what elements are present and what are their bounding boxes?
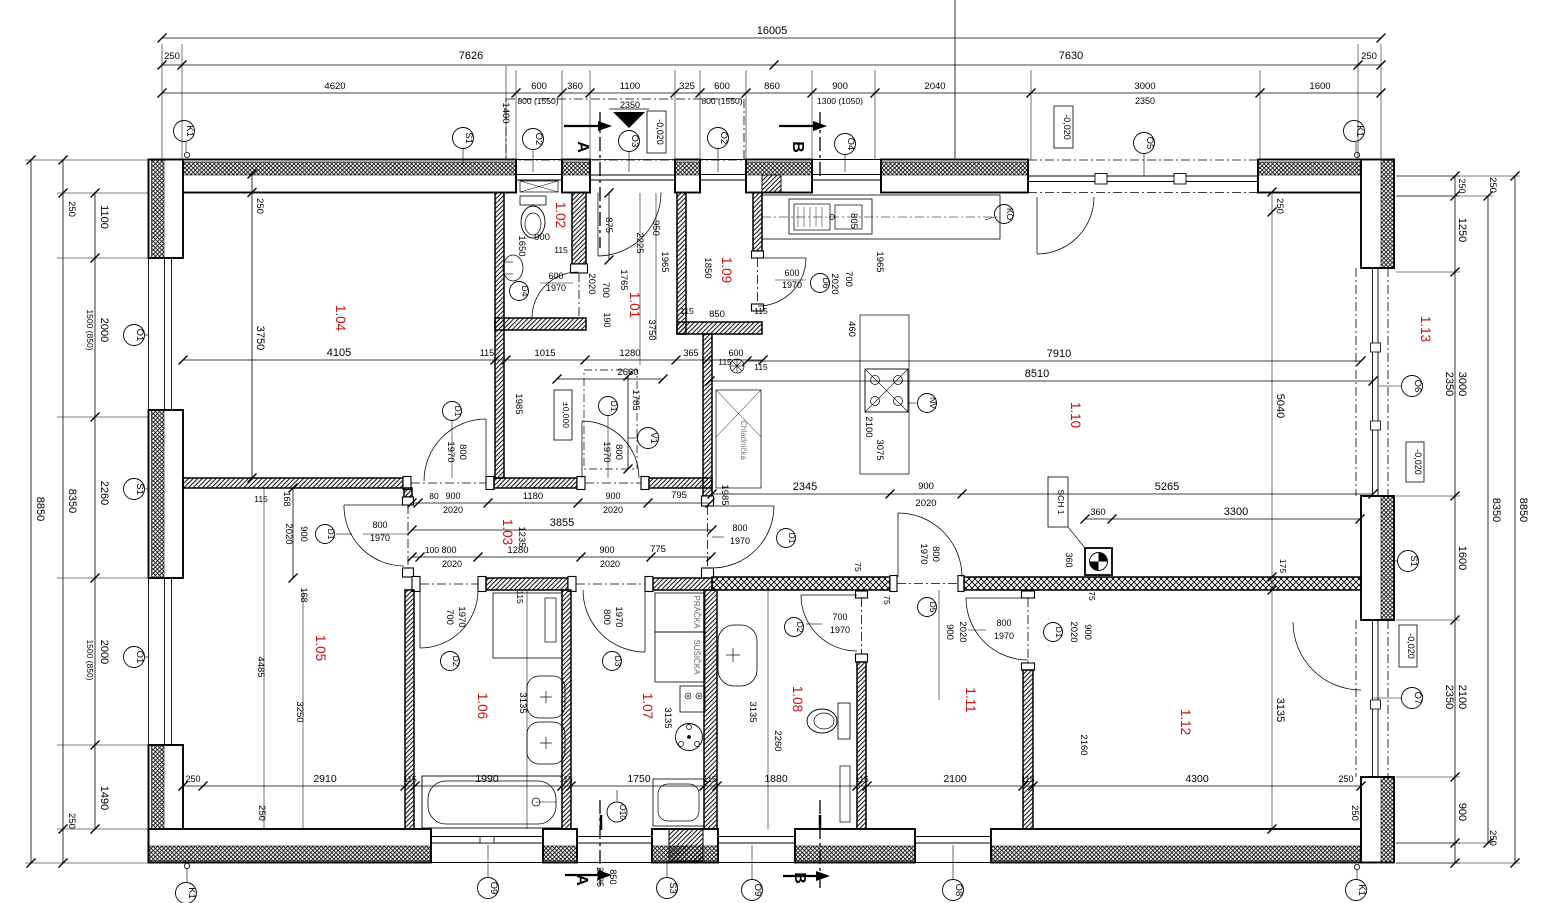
svg-text:3855: 3855 [550,517,574,529]
marker O4 top [835,134,856,155]
svg-text:250: 250 [185,774,200,784]
svg-text:2350: 2350 [620,100,640,110]
svg-text:1970: 1970 [613,606,624,627]
svg-text:1970: 1970 [730,536,750,546]
bathroom 1.06 shelf [493,593,562,658]
svg-text:3135: 3135 [1274,698,1286,722]
svg-text:700: 700 [444,609,455,625]
svg-text:1100: 1100 [98,205,110,229]
svg-text:S3: S3 [667,882,678,894]
svg-text:7626: 7626 [459,50,483,62]
closet dashed 1.01 [584,370,637,469]
porch door to 1.10 [1036,197,1038,254]
svg-text:B: B [789,141,806,153]
svg-text:1.02: 1.02 [553,202,568,228]
pier in top wall at 1.09 [762,175,781,193]
svg-text:900: 900 [534,232,550,243]
svg-text:115: 115 [254,494,268,504]
windows in left wall O1,O1 [148,258,150,410]
svg-text:D1: D1 [787,533,797,544]
svg-text:850: 850 [709,309,725,320]
svg-text:168: 168 [282,491,292,506]
windows in bottom wall O9,O10,O9,O8 [431,862,543,864]
svg-text:1970: 1970 [445,441,456,462]
left dimension chains [30,160,32,863]
svg-text:A: A [573,874,590,886]
masonry pier S3 [669,829,703,861]
corridor 1.03 dims [412,502,710,504]
WC washbasin [503,255,523,281]
svg-text:900: 900 [832,81,848,92]
svg-text:O10: O10 [618,804,628,820]
svg-text:S1: S1 [134,483,145,495]
level -0,020 right1 [1406,442,1424,482]
svg-text:2100: 2100 [863,416,874,437]
svg-text:1750: 1750 [627,773,651,785]
svg-text:2000: 2000 [98,640,110,664]
1.04 vertical dim [251,174,253,478]
right dimension chains [1454,176,1456,863]
marker O9 bottom [478,878,499,899]
svg-text:-0,020: -0,020 [1062,114,1072,140]
bottom exterior wall [149,829,432,863]
svg-text:900: 900 [1456,803,1468,821]
svg-text:365: 365 [683,348,698,358]
svg-text:1970: 1970 [994,631,1014,641]
kitchen island [860,315,909,474]
svg-text:1300 (1050): 1300 (1050) [817,96,863,106]
marker KO [995,205,1014,224]
svg-text:1970: 1970 [456,606,467,627]
svg-text:KO: KO [1005,208,1015,221]
svg-text:O3: O3 [629,135,640,148]
svg-text:8350: 8350 [66,489,78,513]
svg-text:O1: O1 [134,651,145,664]
svg-text:860: 860 [764,81,780,92]
svg-text:190: 190 [602,312,612,327]
marker D1 a [443,402,462,421]
svg-text:1500 (850): 1500 (850) [85,639,95,680]
marker O9 bottom2 [742,880,763,901]
svg-text:8850: 8850 [34,497,46,521]
entrance arrow [613,112,645,128]
svg-text:3000: 3000 [1456,372,1468,396]
svg-text:2350: 2350 [1135,96,1155,106]
svg-text:PRAČKA: PRAČKA [692,596,701,630]
svg-text:2350: 2350 [1443,685,1455,709]
marker S3 bottom [657,878,678,899]
svg-text:80: 80 [429,491,439,501]
marker D1 b [599,397,618,416]
svg-text:5265: 5265 [1155,481,1179,493]
svg-text:115: 115 [754,362,768,372]
svg-text:O7: O7 [1412,692,1423,705]
door D1 1.01-1.03 [581,421,583,478]
door D4 (1.02) [532,317,578,319]
dim line rooms top area y=360 [183,359,763,361]
svg-text:SCH 1: SCH 1 [1056,489,1066,514]
marker K1 top-right [1344,121,1365,142]
svg-text:1970: 1970 [830,625,850,635]
wall 1.02 bottom [495,318,586,330]
svg-text:600: 600 [548,271,563,281]
wall 1.09 bottom [677,322,762,334]
svg-text:1400: 1400 [500,102,511,123]
dims 360/3300 [1085,518,1360,520]
svg-text:115: 115 [480,348,494,358]
svg-text:D1: D1 [1054,627,1064,638]
svg-text:Chladnička: Chladnička [739,420,748,460]
svg-text:1970: 1970 [782,280,802,290]
svg-text:2040: 2040 [924,81,945,92]
svg-text:250: 250 [1487,830,1498,846]
svg-text:-0,020: -0,020 [655,119,665,145]
marker O6 right [1402,376,1423,397]
svg-text:1015: 1015 [534,348,555,359]
vent symbol [730,359,744,373]
dims 7910/8510 [747,360,1361,362]
svg-text:1.09: 1.09 [719,257,734,283]
wall 1.11/1.12 with door D1 [1022,591,1035,598]
svg-text:1.13: 1.13 [1418,316,1433,342]
bottom rooms dim line y=786 [183,785,1361,787]
svg-text:2225: 2225 [595,867,605,887]
svg-text:1880: 1880 [764,773,788,785]
svg-text:5040: 5040 [1274,394,1286,418]
marker O1 left2 [124,647,145,668]
svg-text:3135: 3135 [662,707,673,728]
svg-text:D4: D4 [520,286,530,297]
svg-text:168: 168 [299,587,309,602]
top exterior wall [149,160,517,193]
svg-text:8350: 8350 [1490,498,1502,522]
svg-text:600: 600 [531,81,547,92]
door D5 to 1.10 [897,513,899,577]
svg-text:115: 115 [559,774,573,784]
svg-text:O2: O2 [718,132,729,145]
svg-text:600: 600 [784,268,799,278]
svg-text:D1: D1 [609,401,619,412]
section B top [779,125,815,127]
svg-text:800 (1550): 800 (1550) [517,96,558,106]
grid line [954,0,956,160]
svg-text:3750: 3750 [646,319,657,340]
svg-text:75: 75 [1087,591,1097,601]
entrance door [597,193,599,257]
1.13 right side leaders [1355,620,1357,777]
svg-text:4105: 4105 [327,347,351,359]
svg-text:1.03: 1.03 [500,519,515,545]
level -0,020 right2 [1399,625,1417,667]
svg-text:2020: 2020 [600,559,620,569]
svg-text:A: A [574,141,591,153]
door D3 to 1.07 [644,590,646,652]
svg-text:1850: 1850 [702,257,713,278]
svg-text:O4: O4 [845,138,856,151]
svg-text:8510: 8510 [1025,368,1049,380]
svg-text:250: 250 [254,198,265,214]
svg-text:800: 800 [441,545,456,555]
svg-text:3000: 3000 [1134,81,1155,92]
svg-text:2020: 2020 [915,498,936,509]
svg-text:800: 800 [613,444,624,460]
D2 door 1.08 labels [785,618,804,637]
svg-text:K1: K1 [186,887,197,899]
marker S1 top [453,128,474,149]
wall 1.07/1.08 [704,590,717,829]
svg-text:3075: 3075 [874,439,885,460]
stove NV [865,369,908,412]
wall 1.02/1.01 with door D4 [572,193,586,265]
boiler 1.07 [676,724,703,751]
door D1 to 1.04 [485,419,487,481]
svg-text:1250: 1250 [1456,218,1468,242]
svg-text:2160: 2160 [1078,734,1089,755]
svg-text:2350: 2350 [1443,372,1455,396]
svg-text:-0,020: -0,020 [1413,449,1423,475]
dim 2660 closet [557,378,663,380]
svg-text:7910: 7910 [1047,348,1071,360]
section A top [564,125,600,127]
wall 1.03 bottom (1.06/1.07 top) with doors D2,D3 [412,577,420,592]
basins 1.06 [527,676,565,718]
svg-text:1970: 1970 [370,533,390,543]
svg-text:D1: D1 [453,406,463,417]
D2 door 1.06 labels [441,652,460,671]
left exterior wall [149,160,184,259]
svg-text:NV: NV [928,397,938,409]
svg-text:1970: 1970 [918,543,929,564]
svg-text:360: 360 [567,81,583,92]
svg-text:O8: O8 [953,884,964,897]
svg-text:115: 115 [754,306,768,316]
svg-text:2020: 2020 [443,505,463,515]
right glazing 1.13 band + O7 window [1355,268,1357,496]
niche above WC [520,181,558,192]
svg-text:1490: 1490 [98,786,110,810]
svg-text:250: 250 [1349,805,1360,821]
svg-text:115: 115 [1021,774,1035,784]
marker K1 bottom-right [1346,880,1367,901]
svg-text:3135: 3135 [747,701,758,722]
svg-text:360: 360 [1064,552,1074,567]
svg-text:1280: 1280 [619,348,640,359]
svg-text:115: 115 [403,774,417,784]
svg-text:O9: O9 [752,884,763,897]
wall 1.10 left (below pantry) with door D1 [703,334,712,496]
svg-text:D3: D3 [613,656,623,667]
right exterior wall [1361,160,1394,269]
marker O7 right [1402,688,1423,709]
terrace door swing 1.12 [1293,622,1361,690]
svg-text:700: 700 [600,282,611,298]
svg-text:175: 175 [1278,559,1288,573]
right interior vertical dims [1271,192,1273,829]
svg-text:2020: 2020 [283,523,294,544]
porch glazed wall O5 [1028,159,1258,161]
svg-text:250: 250 [1338,774,1353,784]
svg-text:1600: 1600 [1456,546,1468,570]
marker O1 left [124,325,145,346]
svg-text:250: 250 [1361,51,1377,62]
svg-text:O1: O1 [134,329,145,342]
svg-text:775: 775 [650,544,666,555]
level -0,020 top right [1054,106,1073,148]
svg-text:875: 875 [603,217,614,233]
wall 1.04/1.02 vertical [495,193,504,479]
svg-text:1600: 1600 [1309,81,1330,92]
radiator 1.08 [840,766,850,822]
wall 1.06/1.07 [562,590,571,829]
svg-text:3250: 3250 [294,701,305,722]
svg-text:4300: 4300 [1185,773,1209,785]
svg-text:2020: 2020 [586,273,597,294]
svg-text:1785: 1785 [630,389,641,410]
svg-text:900: 900 [944,624,955,640]
svg-text:1500 (850): 1500 (850) [85,309,95,350]
svg-text:115: 115 [515,590,525,604]
marker O10 [607,802,627,822]
svg-text:1985: 1985 [513,393,524,414]
dims 2345/900/5265 line [712,493,1373,495]
svg-text:100: 100 [425,545,439,555]
svg-text:795: 795 [671,490,687,501]
svg-text:115: 115 [703,774,717,784]
marker O2b top [708,128,729,149]
wall 1.05/1.06 [405,590,414,829]
marker D6 [811,274,830,293]
svg-text:B: B [791,872,808,884]
svg-text:900: 900 [445,491,460,501]
level -0,020 top [647,111,666,153]
svg-text:950: 950 [650,220,661,236]
svg-text:325: 325 [679,81,695,92]
corridor wall 1.04|1.03 horizontal with doors D1 [183,478,403,488]
shower 1.07 [653,779,704,826]
svg-text:2020: 2020 [957,621,968,642]
svg-text:3135: 3135 [517,692,528,713]
svg-text:250: 250 [66,201,77,217]
svg-text:O2: O2 [533,133,544,146]
svg-text:D5: D5 [928,602,938,613]
washer/dryer 1.07 [655,593,705,632]
svg-text:1180: 1180 [523,491,543,502]
svg-text:2020: 2020 [442,559,462,569]
marker V1 [638,428,659,449]
svg-text:V1: V1 [648,432,659,444]
svg-text:SUŠIČKA: SUŠIČKA [692,639,701,675]
svg-text:K1: K1 [184,125,195,137]
marker D1 c [316,525,335,544]
svg-text:250: 250 [164,51,180,62]
svg-text:360: 360 [1090,507,1105,517]
svg-text:2020: 2020 [603,505,623,515]
top dimension chains [162,37,1381,39]
svg-text:O5: O5 [1144,137,1155,150]
WC 1.02 toilet [520,196,546,205]
svg-text:2020: 2020 [1068,621,1079,642]
svg-text:2225: 2225 [634,232,645,253]
svg-text:2100: 2100 [943,773,967,785]
load-bearing wall 1.10|1.11,1.12 with door D5 [712,577,890,590]
svg-text:4485: 4485 [255,656,266,677]
svg-text:3750: 3750 [254,326,266,350]
svg-text:1.12: 1.12 [1178,709,1193,735]
svg-text:1.05: 1.05 [313,635,328,661]
svg-text:1.11: 1.11 [963,687,978,712]
door D2 to 1.06 [419,590,421,648]
svg-text:S1: S1 [463,132,474,144]
svg-text:800: 800 [732,523,747,533]
svg-text:600: 600 [714,81,730,92]
marker O3 top [619,131,640,152]
door D1 to 1.11 [966,597,1028,599]
svg-text:900: 900 [298,526,309,542]
bathtub 1.06 [422,776,562,828]
svg-text:900: 900 [599,545,614,555]
svg-text:±0,000: ±0,000 [561,402,571,428]
svg-text:2260: 2260 [98,481,110,505]
svg-text:D2: D2 [795,622,805,633]
svg-text:1.07: 1.07 [640,693,655,719]
svg-text:250: 250 [1457,178,1467,193]
svg-text:1100: 1100 [620,81,640,92]
svg-text:7630: 7630 [1059,50,1083,62]
svg-text:2910: 2910 [313,773,337,785]
marker D4 [510,282,529,301]
svg-text:800: 800 [601,609,612,625]
svg-text:1280: 1280 [507,545,528,556]
door D1 to 1.05 [344,504,404,506]
svg-text:2100: 2100 [1456,685,1468,709]
marker K1 bottom-left [176,883,197,903]
svg-text:1.06: 1.06 [475,693,490,719]
svg-text:1970: 1970 [546,283,566,293]
svg-text:O6: O6 [1412,380,1423,393]
svg-text:75: 75 [882,595,892,605]
svg-text:D1: D1 [326,529,336,540]
svg-text:800: 800 [457,444,468,460]
svg-text:4620: 4620 [324,81,345,92]
level 0,000 box [554,390,572,440]
svg-text:3300: 3300 [1224,506,1248,518]
svg-text:2000: 2000 [98,318,110,342]
section B bottom [819,800,821,888]
wall 1.05/1.03 vertical with door D1 [404,488,412,497]
svg-text:850: 850 [608,869,618,884]
D3 door 1.07 labels [603,652,622,671]
svg-text:2020: 2020 [829,273,840,294]
D5 door labels [918,598,937,617]
svg-text:2260: 2260 [772,730,783,751]
svg-text:115: 115 [680,306,694,316]
marker S1 right [1398,551,1419,572]
svg-text:1990: 1990 [475,773,499,785]
svg-text:900: 900 [918,481,934,492]
door D1 to 1.10 [712,505,774,507]
svg-text:1985: 1985 [719,484,730,505]
svg-text:16005: 16005 [757,25,788,37]
svg-text:1650: 1650 [516,235,527,256]
svg-text:D2: D2 [451,656,461,667]
svg-text:K1: K1 [1356,884,1367,896]
svg-text:805: 805 [848,213,859,229]
wall 1.09 right with door D6 [753,193,762,252]
svg-text:1.04: 1.04 [333,305,348,332]
SCH 1 label [1048,477,1068,527]
svg-text:700: 700 [832,612,847,622]
svg-text:460: 460 [846,321,857,337]
